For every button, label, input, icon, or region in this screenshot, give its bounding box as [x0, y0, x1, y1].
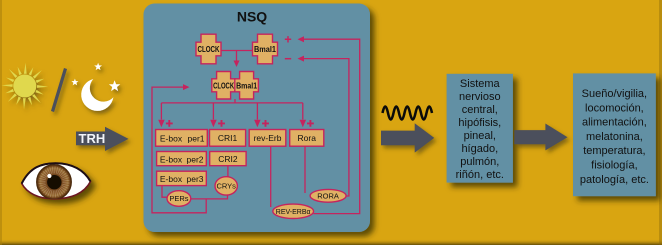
svg-text:E-box: E-box: [160, 174, 183, 184]
NSQ nucleus box: [144, 4, 371, 233]
box rev-Erb: [249, 130, 286, 147]
svg-text:REV-ERBα: REV-ERBα: [276, 209, 311, 216]
svg-text:Bmal1: Bmal1: [236, 81, 257, 90]
plus sign (positive feedback label): [285, 36, 291, 42]
protein RORA (ellipse): [310, 189, 346, 202]
squiggle wave (neural signal): [383, 107, 433, 120]
box CRI2: [210, 152, 246, 166]
wire REV-ERBa to plus (right outer feedback): [298, 36, 360, 213]
svg-text:hipófisis,: hipófisis,: [458, 117, 501, 129]
box CRI1: [210, 130, 246, 147]
svg-text:CRI2: CRI2: [218, 154, 238, 164]
svg-text:fisiología,: fisiología,: [591, 160, 637, 172]
wire distributor drop arrow 2 with plus: [210, 103, 225, 127]
box E-box per1: [156, 130, 208, 147]
svg-text:Sistema: Sistema: [460, 78, 501, 90]
svg-text:pineal,: pineal,: [464, 130, 496, 142]
svg-text:patología, etc.: patología, etc.: [580, 174, 649, 186]
svg-text:PERs: PERs: [169, 194, 188, 203]
gene CLOCK (cross): [196, 34, 221, 64]
protein PERs (ellipse): [167, 191, 191, 207]
svg-text:riñón, etc.: riñón, etc.: [456, 169, 504, 181]
wire CLOCK/Bmal1 to complex (T connector with down arrow): [221, 51, 252, 68]
svg-text:Sueño/vigilia,: Sueño/vigilia,: [582, 88, 647, 100]
wire complex to promoter distributor line: [161, 99, 302, 103]
outputs box (Sueno/vigilia...): [573, 73, 656, 196]
wire distributor drop arrow 4 with plus: [300, 103, 314, 127]
svg-text:CLOCK: CLOCK: [198, 45, 220, 54]
arrow systems to outputs box: [514, 124, 567, 151]
svg-text:CRI1: CRI1: [218, 133, 238, 143]
svg-text:locomoción,: locomoción,: [585, 102, 644, 114]
TRH arrow: [76, 127, 129, 151]
svg-text:Bmal1: Bmal1: [254, 45, 277, 54]
svg-text:alimentación,: alimentación,: [582, 117, 647, 129]
svg-text:RORA: RORA: [317, 192, 339, 201]
svg-text:central,: central,: [462, 104, 498, 116]
svg-text:nervioso: nervioso: [459, 91, 501, 103]
svg-text:CLOCK: CLOCK: [213, 81, 234, 90]
wire PERs/CRYs left feedback loop into CLOCK:BMAL1: [152, 84, 206, 213]
wire CRI2 to CRYs: [227, 166, 229, 177]
svg-text:CRYs: CRYs: [216, 182, 236, 191]
wire E-box per3 to PERs: [162, 186, 167, 197]
eye icon: [22, 163, 91, 199]
moon icon with stars: [71, 63, 120, 111]
wire distributor drop arrow 1 with plus: [158, 103, 173, 127]
wire PERs to CRYs: [191, 195, 228, 199]
sun icon: [2, 63, 49, 110]
protein CRYs (ellipse): [215, 177, 237, 195]
box E-box per3: [157, 171, 207, 185]
box Rora: [290, 130, 324, 147]
svg-text:E-box: E-box: [160, 154, 183, 164]
protein REV-ERBa (ellipse): [273, 204, 314, 218]
svg-text:rev-Erb: rev-Erb: [254, 133, 282, 143]
svg-text:Rora: Rora: [298, 133, 317, 143]
svg-text:temperatura,: temperatura,: [583, 145, 645, 157]
right edge shading: [659, 0, 662, 245]
wire distributor drop arrow 3 with plus: [254, 103, 269, 127]
svg-text:pulmón,: pulmón,: [460, 156, 499, 168]
gene Bmal1 (cross): [253, 34, 278, 64]
svg-text:per1: per1: [187, 134, 204, 144]
svg-text:per3: per3: [186, 174, 203, 184]
svg-text:melatonina,: melatonina,: [586, 131, 643, 143]
slash separator day/night: [53, 69, 66, 112]
wire rev-Erb to REV-ERBa: [270, 146, 272, 207]
left edge shading: [0, 0, 2, 245]
arrow NSQ to systems box: [381, 123, 434, 152]
systems box (Sistema nervioso...): [447, 74, 513, 183]
svg-text:hígado,: hígado,: [461, 143, 498, 155]
svg-text:TRH: TRH: [79, 131, 106, 146]
protein complex CLOCK:BMAL1 (paired crosses): [212, 72, 259, 100]
svg-text:NSQ: NSQ: [237, 9, 267, 25]
bottom edge shading: [0, 239, 662, 245]
wire RORA to minus (right inner feedback): [298, 56, 349, 196]
svg-text:per2: per2: [186, 154, 203, 164]
box E-box per2: [157, 152, 207, 166]
wire Rora to RORA: [304, 146, 306, 193]
minus sign (negative feedback label): [285, 58, 291, 60]
svg-text:E-box: E-box: [160, 134, 183, 144]
